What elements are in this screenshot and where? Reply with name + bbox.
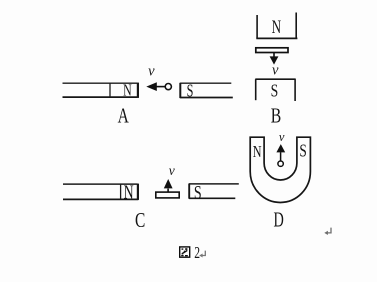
svg-text:N: N [124, 182, 134, 203]
svg-text:B: B [271, 103, 282, 127]
ring conductor (D) [278, 161, 283, 166]
svg-text:v: v [169, 163, 175, 178]
conductor bar (B) [256, 48, 288, 53]
svg-text:D: D [273, 208, 283, 232]
velocity arrow (B) [270, 53, 279, 65]
magnet S pole (B) [255, 79, 295, 101]
svg-text:N: N [123, 81, 132, 100]
svg-text:S: S [187, 81, 194, 101]
svg-text:N: N [272, 18, 282, 38]
pole divider C-left [120, 184, 122, 199]
bar magnet A-right body [180, 83, 233, 98]
velocity arrow (D) [276, 144, 285, 161]
velocity arrow (C) [164, 179, 173, 192]
conductor bar (C) [156, 192, 179, 198]
bar magnet C-right body [189, 184, 239, 199]
caption character 图 [180, 247, 190, 257]
ring conductor (A) [165, 84, 171, 90]
svg-text:2: 2 [194, 243, 200, 262]
svg-text:v: v [272, 62, 279, 78]
svg-text:N: N [253, 142, 262, 161]
svg-text:v: v [148, 63, 155, 79]
magnet N pole (B) [256, 13, 297, 39]
bar magnet C-left body [63, 184, 138, 200]
bar magnet A-left body [63, 83, 138, 98]
paragraph mark after caption [199, 251, 205, 258]
svg-text:v: v [279, 130, 285, 144]
svg-text:S: S [271, 81, 279, 101]
svg-text:S: S [299, 140, 306, 160]
paragraph mark right margin [324, 228, 331, 235]
pole divider A-left [109, 83, 111, 97]
svg-text:S: S [194, 183, 202, 204]
svg-text:A: A [118, 103, 130, 127]
svg-text:C: C [135, 208, 145, 232]
horseshoe magnet (D) [250, 137, 310, 202]
velocity arrow (A) [146, 82, 165, 91]
